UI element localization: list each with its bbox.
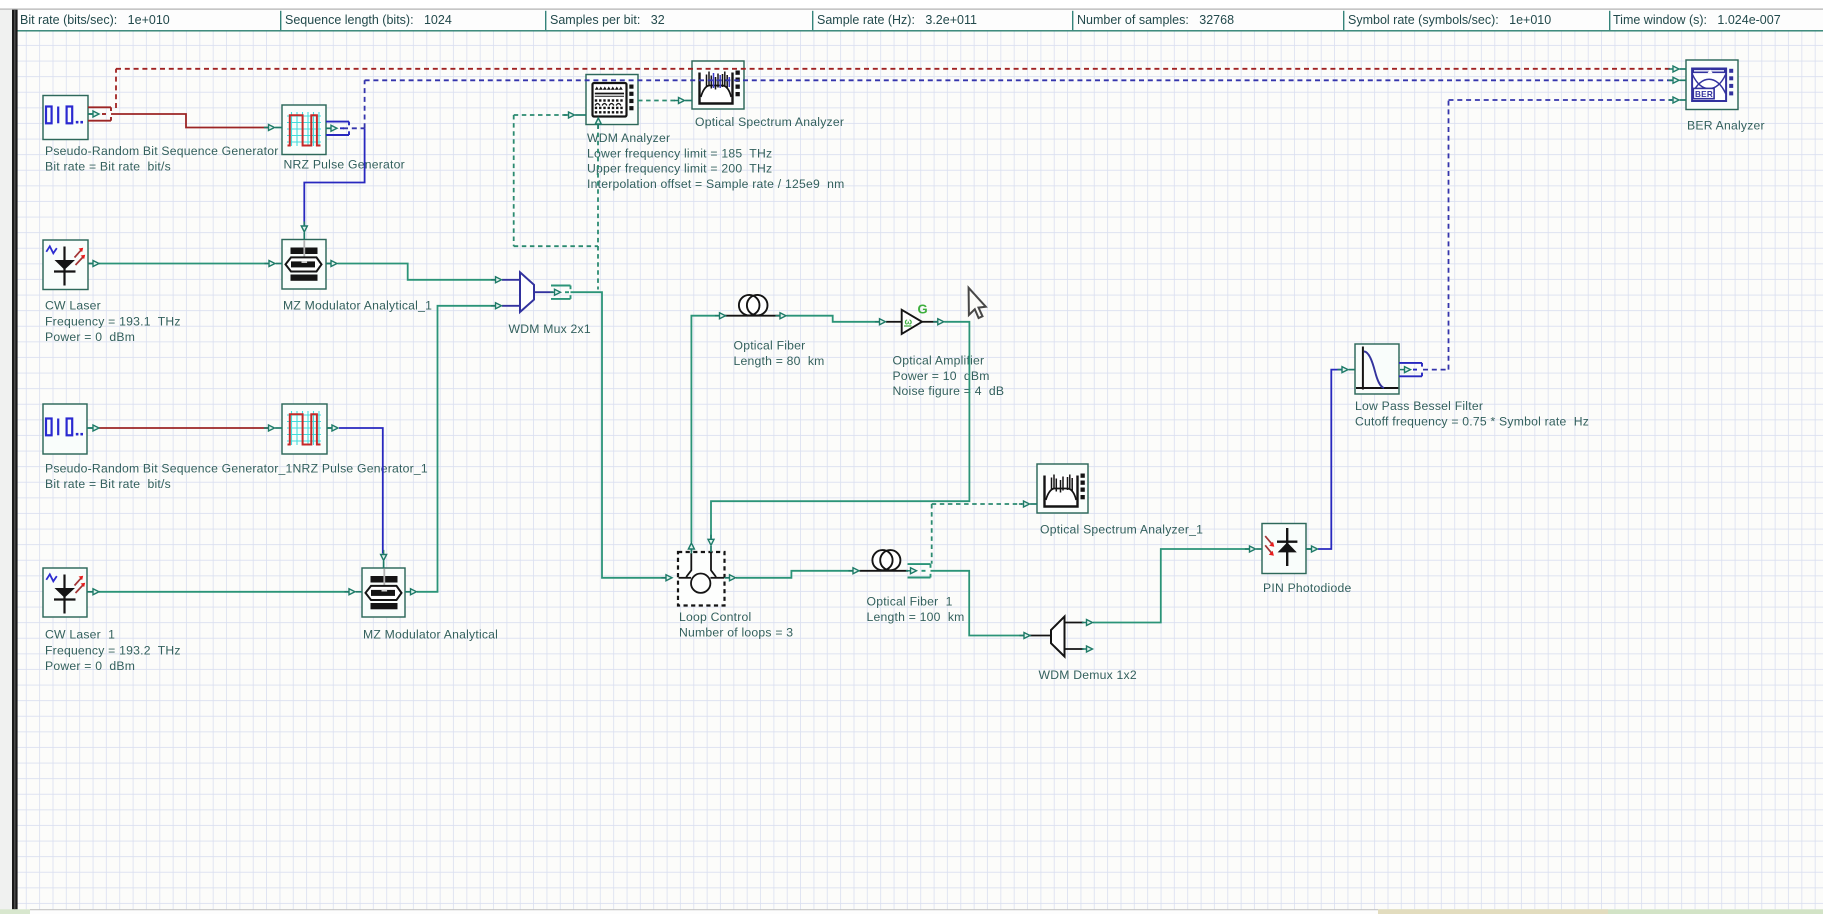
svg-text:Power = 0 dBm: Power = 0 dBm (45, 659, 135, 673)
svg-text:BER: BER (1695, 90, 1713, 99)
svg-text:WDM Analyzer: WDM Analyzer (587, 131, 670, 145)
svg-text:Pseudo-Random Bit Sequence Gen: Pseudo-Random Bit Sequence Generator (45, 144, 279, 158)
svg-text:Length = 80 km: Length = 80 km (734, 354, 825, 368)
svg-text:Optical Spectrum Analyzer_1: Optical Spectrum Analyzer_1 (1040, 523, 1203, 537)
svg-text:MZ Modulator Analytical: MZ Modulator Analytical (363, 628, 498, 642)
svg-text:Time window (s): 1.024e-007: Time window (s): 1.024e-007 (1613, 13, 1781, 27)
svg-text:WDM Demux 1x2: WDM Demux 1x2 (1039, 668, 1137, 682)
svg-text:Power = 10 dBm: Power = 10 dBm (893, 369, 990, 383)
svg-text:Bit rate (bits/sec): 1e+010: Bit rate (bits/sec): 1e+010 (20, 13, 170, 27)
svg-text:Lower frequency limit = 185 T: Lower frequency limit = 185 THz (587, 146, 772, 160)
svg-text:Sample rate (Hz): 3.2e+011: Sample rate (Hz): 3.2e+011 (817, 13, 977, 27)
svg-text:Number of samples: 32768: Number of samples: 32768 (1077, 13, 1234, 27)
svg-text:CW Laser 1: CW Laser 1 (45, 628, 115, 642)
svg-text:Frequency = 193.1 THz: Frequency = 193.1 THz (45, 314, 181, 328)
svg-text:Number of loops = 3: Number of loops = 3 (679, 626, 793, 640)
svg-text:Optical Spectrum Analyzer: Optical Spectrum Analyzer (695, 115, 844, 129)
svg-text:G: G (918, 302, 928, 317)
svg-text:Samples per bit: 32: Samples per bit: 32 (550, 13, 665, 27)
svg-text:Optical Fiber 1: Optical Fiber 1 (867, 595, 953, 609)
svg-text:WDM Mux 2x1: WDM Mux 2x1 (509, 322, 591, 336)
svg-text:MZ Modulator Analytical_1: MZ Modulator Analytical_1 (283, 299, 432, 313)
svg-text:Noise figure = 4 dB: Noise figure = 4 dB (893, 384, 1005, 398)
svg-text:Upper frequency limit = 200 T: Upper frequency limit = 200 THz (587, 162, 772, 176)
svg-text:Low Pass Bessel Filter: Low Pass Bessel Filter (1355, 399, 1483, 413)
svg-text:Optical Amplifier: Optical Amplifier (893, 354, 985, 368)
svg-text:Symbol rate (symbols/sec): 1: Symbol rate (symbols/sec): 1e+010 (1348, 13, 1551, 27)
svg-text:Frequency = 193.2 THz: Frequency = 193.2 THz (45, 643, 181, 657)
svg-text:Loop Control: Loop Control (679, 610, 751, 624)
svg-text:Sequence length (bits): 1024: Sequence length (bits): 1024 (285, 13, 452, 27)
svg-text:Interpolation offset = Sample: Interpolation offset = Sample rate / 125… (587, 177, 845, 191)
svg-text:Bit rate = Bit rate bit/s: Bit rate = Bit rate bit/s (45, 477, 171, 491)
svg-text:Pseudo-Random Bit Sequence Gen: Pseudo-Random Bit Sequence Generator_1NR… (45, 462, 428, 476)
svg-text:NRZ Pulse Generator: NRZ Pulse Generator (284, 158, 405, 172)
svg-text:Length = 100 km: Length = 100 km (867, 610, 965, 624)
svg-text:ω: ω (905, 317, 913, 327)
svg-text:Bit rate = Bit rate bit/s: Bit rate = Bit rate bit/s (45, 160, 171, 174)
svg-text:Cutoff frequency = 0.75 * Symb: Cutoff frequency = 0.75 * Symbol rate Hz (1355, 415, 1589, 429)
svg-text:Power = 0 dBm: Power = 0 dBm (45, 330, 135, 344)
svg-text:PIN Photodiode: PIN Photodiode (1263, 581, 1351, 595)
svg-text:BER Analyzer: BER Analyzer (1687, 119, 1765, 133)
svg-text:CW Laser: CW Laser (45, 299, 101, 313)
svg-text:Optical Fiber: Optical Fiber (734, 338, 806, 352)
